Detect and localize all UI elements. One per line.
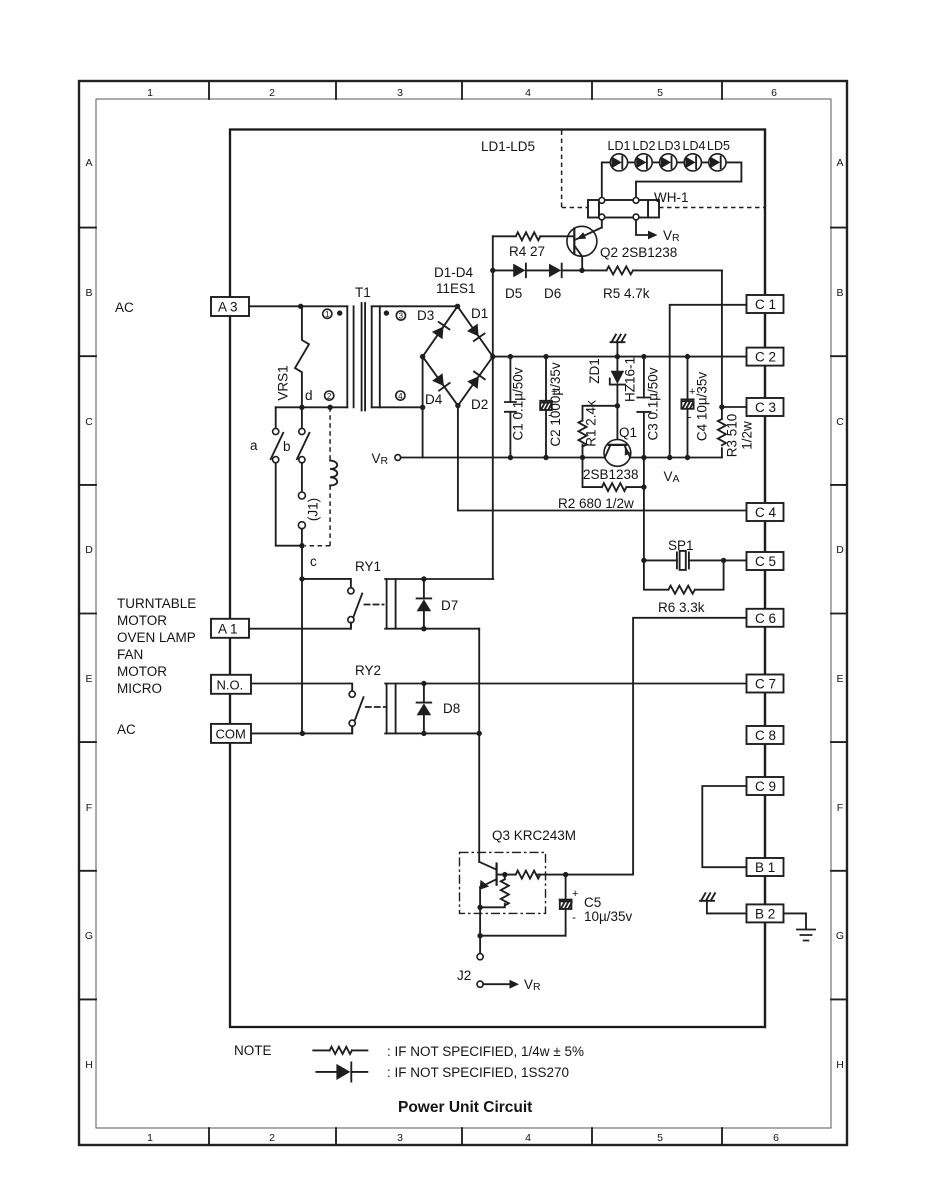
node R2 right — [641, 484, 646, 489]
label VA rail — [664, 469, 680, 485]
ground chassis at B2 — [700, 893, 747, 913]
svg-text:MOTOR: MOTOR — [117, 613, 167, 628]
node C1 bottom — [508, 455, 513, 460]
zener ZD1 HZ16-1 — [587, 357, 638, 406]
wire C1 terminal to VR rail — [670, 305, 747, 458]
svg-text:D4: D4 — [425, 392, 443, 407]
node primary bottom pin2 — [327, 405, 332, 410]
svg-text:R4 27: R4 27 — [509, 244, 545, 259]
node C2 bottom — [543, 455, 548, 460]
svg-text:HZ16-1: HZ16-1 — [623, 357, 638, 402]
svg-text:RY2: RY2 — [355, 663, 381, 678]
ground earth right of B2 — [784, 913, 816, 940]
relay coil J1 linkage — [305, 407, 337, 545]
resistor R1 2.4k — [579, 400, 618, 458]
resistor R5 4.7k — [582, 266, 722, 301]
svg-text:C 5: C 5 — [755, 554, 776, 569]
svg-text:D: D — [85, 544, 93, 556]
resistor R4 27 — [493, 232, 575, 259]
terminal VR node circle — [372, 451, 401, 467]
svg-text:+: + — [572, 888, 578, 900]
svg-text:R3 510: R3 510 — [725, 414, 740, 458]
wire bridge left vertex to VR rail — [422, 357, 424, 458]
buzzer SP1 — [644, 538, 724, 570]
capacitor C3 0.1u/50v — [637, 357, 660, 458]
node VRS1 top — [298, 304, 303, 309]
terminal box C7 — [747, 675, 784, 693]
wire R5 to C3 node riser — [721, 270, 723, 407]
svg-text:1: 1 — [325, 310, 330, 319]
svg-text:4: 4 — [525, 1132, 531, 1144]
svg-text:TURNTABLE: TURNTABLE — [117, 596, 196, 611]
node C3 bottom — [641, 455, 646, 460]
node RY coil return junction — [477, 731, 482, 736]
svg-text:C 7: C 7 — [755, 677, 776, 692]
svg-text:C4 10µ/35v: C4 10µ/35v — [695, 372, 710, 442]
node D7 top — [421, 576, 426, 581]
svg-text:T1: T1 — [355, 285, 371, 300]
wire RY2 coil top rail to C7 terminal — [385, 683, 746, 685]
svg-text:Q3 KRC243M: Q3 KRC243M — [492, 828, 576, 843]
svg-text:b: b — [283, 439, 291, 454]
svg-text:B: B — [85, 287, 92, 299]
diode D3 — [417, 308, 449, 339]
svg-text:E: E — [85, 673, 92, 685]
connector WH-1 — [588, 190, 689, 220]
diode D1 — [467, 306, 488, 341]
node RY1 c-line tee — [299, 576, 304, 581]
svg-text:3: 3 — [397, 87, 403, 99]
svg-text:B 1: B 1 — [755, 860, 775, 875]
capacitor C2 1000u/35v — [540, 357, 563, 458]
svg-text:V: V — [664, 469, 673, 484]
svg-text:5: 5 — [657, 1132, 663, 1144]
note legend — [234, 1043, 584, 1082]
terminal box B2 — [747, 904, 784, 922]
svg-text:10µ/35v: 10µ/35v — [584, 909, 633, 924]
jumper J2 — [457, 954, 483, 988]
bridge rectifier diamond — [423, 306, 493, 405]
svg-text:C 1: C 1 — [755, 297, 776, 312]
svg-text:SP1: SP1 — [668, 538, 694, 553]
svg-text:3: 3 — [399, 312, 404, 321]
dashed boundary line to WH-1 — [562, 131, 764, 208]
svg-text:C5: C5 — [584, 895, 601, 910]
wire WH-1 pin 3 to Q2 emitter — [601, 220, 603, 228]
svg-text:A: A — [673, 473, 680, 485]
svg-text:LD3: LD3 — [658, 139, 681, 153]
svg-text:LD1-LD5: LD1-LD5 — [481, 139, 535, 154]
terminal box C8 — [747, 726, 784, 744]
svg-text:6: 6 — [771, 87, 777, 99]
svg-text:1/2w: 1/2w — [740, 421, 755, 450]
wire C5 return to emitter — [480, 935, 565, 937]
wire A1 to RY1 switch — [249, 623, 351, 629]
svg-text:C 6: C 6 — [755, 611, 776, 626]
LED LD5 — [707, 139, 730, 171]
svg-text:R: R — [533, 981, 541, 993]
wire LED chain right return to WH-1 pin 2 — [636, 162, 741, 198]
relay RY2 — [251, 663, 479, 733]
svg-text:V: V — [524, 977, 533, 992]
node ZD1 anode / R1 tee — [615, 403, 620, 408]
node SP1 right — [721, 558, 726, 563]
wire SP1 to C5 terminal — [724, 559, 747, 561]
svg-text:C: C — [836, 416, 844, 428]
svg-text:C 8: C 8 — [755, 728, 776, 743]
svg-text:2: 2 — [269, 1132, 275, 1144]
node Q3 base resistor junction — [502, 872, 507, 877]
node Q2 collector junction — [579, 268, 584, 273]
svg-text:D8: D8 — [443, 701, 460, 716]
svg-text:V: V — [663, 228, 672, 243]
resistor R6 3.3k — [644, 560, 724, 615]
svg-text:-: - — [572, 910, 576, 924]
arrow J2 to VR — [483, 977, 541, 993]
wire c riser to COM — [301, 546, 303, 734]
svg-text:E: E — [836, 673, 843, 685]
node ZD1 top — [615, 354, 620, 359]
node C1 wire bottom — [667, 455, 672, 460]
transformer T1 — [323, 285, 406, 411]
svg-text:4: 4 — [398, 392, 403, 401]
wire bridge bottom to C4 terminal — [458, 406, 747, 511]
svg-text:C3 0.1µ/50v: C3 0.1µ/50v — [646, 367, 661, 440]
diode D5 — [493, 264, 549, 301]
node C1 top — [508, 354, 513, 359]
node bridge right vertex — [490, 354, 495, 359]
svg-text:V: V — [372, 451, 381, 466]
wire VA top rail to C2 terminal — [493, 356, 747, 358]
svg-text:(J1): (J1) — [306, 498, 321, 521]
diode D8 — [417, 684, 461, 734]
svg-text:F: F — [86, 802, 92, 814]
svg-text:J2: J2 — [457, 968, 471, 983]
terminal box B1 — [747, 858, 784, 876]
svg-text:1: 1 — [147, 87, 153, 99]
terminal box NO — [211, 675, 251, 694]
svg-text:MICRO: MICRO — [117, 681, 162, 696]
svg-text:R6 3.3k: R6 3.3k — [658, 600, 705, 615]
svg-text:D1-D4: D1-D4 — [434, 265, 474, 280]
terminal box C3 — [747, 398, 784, 416]
svg-text:D2: D2 — [471, 397, 488, 412]
wire T1 secondary bottom to bridge left riser — [372, 406, 423, 408]
terminal box C5 — [747, 552, 784, 570]
node C4 top — [685, 354, 690, 359]
node C5 return junction — [477, 933, 482, 938]
varistor VRS1 — [276, 306, 310, 407]
svg-text:D7: D7 — [441, 598, 458, 613]
terminal box C4 — [747, 503, 784, 521]
svg-text:C2 1000µ/35v: C2 1000µ/35v — [548, 362, 563, 447]
svg-text:OVEN LAMP: OVEN LAMP — [117, 630, 196, 645]
wire C6 terminal to Q3 base resistor — [633, 618, 746, 875]
wire switch a to c junction — [276, 463, 302, 546]
svg-text:C 4: C 4 — [755, 505, 777, 520]
jumper J1 — [298, 463, 320, 546]
node C2 top — [543, 354, 548, 359]
svg-text:R: R — [381, 455, 389, 467]
svg-text:C: C — [85, 416, 93, 428]
wire WH-1 pin 4 to VR arrow — [636, 220, 680, 244]
switch contact a — [250, 407, 283, 463]
diode D4 — [425, 373, 450, 407]
svg-text:4: 4 — [525, 87, 531, 99]
svg-text:AC: AC — [117, 722, 136, 737]
svg-text:RY1: RY1 — [355, 559, 381, 574]
LED LD4 — [683, 139, 706, 171]
svg-text:2SB1238: 2SB1238 — [583, 467, 639, 482]
svg-text:LD2: LD2 — [633, 139, 656, 153]
svg-text:A 1: A 1 — [218, 621, 238, 636]
wire ZD1 to Q1 base — [616, 406, 618, 445]
svg-text:R5 4.7k: R5 4.7k — [603, 286, 650, 301]
svg-text:C 9: C 9 — [755, 779, 776, 794]
svg-text:G: G — [85, 930, 93, 942]
svg-text:F: F — [837, 802, 843, 814]
svg-text:Q1: Q1 — [619, 425, 637, 440]
svg-text:AC: AC — [115, 300, 134, 315]
wire COM to RY2 switch — [251, 726, 352, 733]
svg-text:A: A — [836, 157, 843, 169]
wire C9 to B1 — [702, 786, 746, 867]
node C4 bottom — [685, 455, 690, 460]
terminal box C2 — [747, 348, 784, 366]
svg-text:C 2: C 2 — [755, 350, 776, 365]
svg-text:B: B — [836, 287, 843, 299]
svg-text:: IF NOT SPECIFIED, 1/4w ± 5%: : IF NOT SPECIFIED, 1/4w ± 5% — [387, 1044, 584, 1059]
node bridge left vertex — [420, 354, 425, 359]
resistor R3 510 1/2w — [718, 407, 755, 458]
node C5 top junction — [563, 872, 568, 877]
svg-text:MOTOR: MOTOR — [117, 664, 167, 679]
svg-text:H: H — [836, 1059, 844, 1071]
svg-text:LD4: LD4 — [683, 139, 706, 153]
node bridge top vertex — [455, 304, 460, 309]
node R1 bottom — [580, 455, 585, 460]
wire bridge output riser (R4/D5 junction down to RY1 coil) — [492, 236, 494, 579]
node secondary bottom tee — [420, 405, 425, 410]
wire LED chain left to WH-1 pin 1 — [602, 162, 611, 198]
svg-text:NOTE: NOTE — [234, 1043, 272, 1058]
node D8 top — [421, 681, 426, 686]
resistor R2 680 1/2w — [558, 458, 644, 512]
wire T1 primary bottom rail — [276, 406, 348, 408]
terminal box C6 — [747, 609, 784, 627]
diode D2 — [467, 372, 488, 412]
svg-text:a: a — [250, 438, 258, 453]
capacitor C5 10u/35v — [560, 875, 633, 936]
svg-text:c: c — [310, 554, 317, 569]
LED LD2 — [633, 139, 656, 171]
svg-text:A: A — [85, 157, 92, 169]
svg-text:Q2 2SB1238: Q2 2SB1238 — [600, 245, 677, 260]
capacitor C4 10u/35v — [681, 357, 709, 458]
terminal box A3 — [211, 297, 249, 316]
node D7 bottom — [421, 626, 426, 631]
LED LD3 — [658, 139, 681, 171]
wire T1 secondary top to bridge — [372, 305, 458, 307]
svg-text:A 3: A 3 — [218, 300, 238, 315]
terminal box C1 — [747, 295, 784, 313]
svg-text:-: - — [688, 410, 692, 424]
svg-text:H: H — [85, 1059, 93, 1071]
wire VR rail — [401, 457, 722, 459]
svg-text:R: R — [672, 232, 680, 244]
node COM c-riser end — [300, 731, 305, 736]
svg-text:D3: D3 — [417, 308, 434, 323]
label turntable motor oven lamp fan motor — [117, 596, 196, 679]
svg-text:D: D — [836, 544, 844, 556]
capacitor C1 0.1u/50v — [505, 357, 526, 458]
svg-text:5: 5 — [657, 87, 663, 99]
svg-text:LD5: LD5 — [707, 139, 730, 153]
node SP1 left — [641, 558, 646, 563]
switch contact b — [283, 407, 309, 463]
svg-text:ZD1: ZD1 — [587, 358, 602, 384]
node D8 bottom — [421, 731, 426, 736]
LED LD1 — [608, 139, 631, 171]
svg-text:D5: D5 — [505, 286, 522, 301]
diode D6 — [544, 264, 582, 301]
svg-text:1: 1 — [147, 1132, 153, 1144]
svg-text:COM: COM — [216, 726, 246, 741]
svg-text:D1: D1 — [471, 306, 488, 321]
svg-text:2: 2 — [269, 87, 275, 99]
svg-text:R2 680 1/2w: R2 680 1/2w — [558, 496, 634, 511]
wire A3 to T1 primary — [249, 305, 347, 307]
ground chassis above ZD1 — [611, 335, 626, 357]
wire RY1 coil bottom to Q3 collector riser — [478, 629, 480, 862]
svg-text:: IF NOT SPECIFIED, 1SS270: : IF NOT SPECIFIED, 1SS270 — [387, 1065, 569, 1080]
node D5 junction — [490, 268, 495, 273]
transistor Q1 2SB1238 — [583, 425, 639, 482]
svg-text:B 2: B 2 — [755, 906, 775, 921]
svg-text:FAN: FAN — [117, 647, 143, 662]
transistor Q3 KRC243M — [460, 828, 634, 954]
terminal box C9 — [747, 777, 784, 795]
node R3 top / C3 terminal junction — [719, 404, 724, 409]
diode D7 — [417, 579, 459, 629]
svg-text:11ES1: 11ES1 — [436, 281, 476, 296]
terminal box COM — [211, 724, 251, 743]
node primary bottom VRS1 — [299, 405, 304, 410]
svg-text:G: G — [836, 930, 844, 942]
relay RY1 — [302, 559, 493, 629]
svg-text:VRS1: VRS1 — [276, 365, 291, 400]
terminal box A1 — [211, 619, 249, 638]
wire LED series links — [610, 161, 717, 163]
svg-text:LD1: LD1 — [608, 139, 631, 153]
transistor Q2 2SB1238 — [567, 226, 677, 270]
node C3 top — [641, 354, 646, 359]
svg-text:C 3: C 3 — [755, 400, 776, 415]
svg-text:d: d — [305, 388, 313, 403]
svg-text:R1 2.4k: R1 2.4k — [584, 400, 599, 447]
svg-text:N.O.: N.O. — [217, 677, 244, 692]
svg-text:WH-1: WH-1 — [654, 190, 689, 205]
node Q3 emitter junction — [477, 905, 482, 910]
svg-text:6: 6 — [773, 1132, 779, 1144]
svg-text:3: 3 — [397, 1132, 403, 1144]
svg-text:C1 0.1µ/50v: C1 0.1µ/50v — [511, 367, 526, 440]
svg-text:D6: D6 — [544, 286, 561, 301]
node bridge bottom vertex — [455, 403, 460, 408]
svg-text:2: 2 — [327, 392, 332, 401]
wire C3 terminal link — [722, 406, 747, 408]
wire C3 node down to SP1 — [643, 458, 645, 561]
svg-text:Power Unit Circuit: Power Unit Circuit — [398, 1099, 532, 1116]
node c junction — [299, 543, 304, 548]
